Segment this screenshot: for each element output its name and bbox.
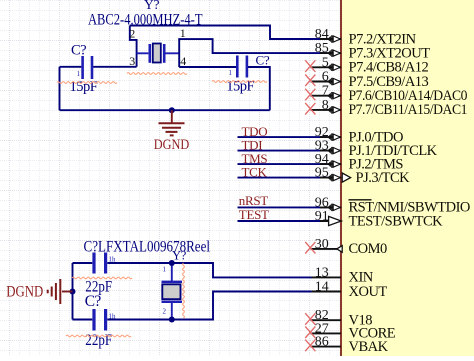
wire C1 to crystal left bar xyxy=(93,66,136,68)
pin 13 XIN xyxy=(312,265,374,285)
svg-text:C?: C? xyxy=(85,293,102,310)
pin 86 VBAK xyxy=(305,335,388,355)
svg-text:P7.7/CB11/A15/DAC1: P7.7/CB11/A15/DAC1 xyxy=(349,102,468,118)
pin 7 P7.6/CB10/A14/DAC0 xyxy=(305,84,467,104)
IC block U1 body xyxy=(341,0,474,356)
wire left rail (32k) xyxy=(72,263,74,320)
svg-text:30: 30 xyxy=(315,237,329,252)
junction crystal bottom xyxy=(169,317,175,323)
wire jog crystal pin2/pin3 left bar xyxy=(130,26,137,67)
svg-text:6: 6 xyxy=(322,70,329,85)
pin 27 VCORE xyxy=(305,321,396,341)
wire net XT2OUT: crystal right bar to pin 85 xyxy=(179,39,327,67)
junction DGND rail xyxy=(70,289,76,295)
crystal Y2 symbol (32k) xyxy=(162,263,183,320)
pin 14 XOUT xyxy=(312,280,388,300)
wire net XT2IN: top rail to pin 84 xyxy=(130,26,327,40)
pin 82 V18 xyxy=(305,308,372,328)
svg-text:TEST: TEST xyxy=(239,207,269,222)
svg-text:8: 8 xyxy=(322,98,329,113)
wire top row to XIN xyxy=(73,262,93,264)
svg-text:TCK: TCK xyxy=(242,164,268,179)
wire crystal right bar to C right cap xyxy=(179,66,236,68)
junction ground rail xyxy=(169,107,175,113)
pin 91 TEST/SBWTCK xyxy=(315,209,443,229)
svg-text:15pF: 15pF xyxy=(226,79,254,95)
capacitor C1 (left 15pF) xyxy=(77,56,93,79)
svg-text:1: 1 xyxy=(180,26,186,40)
svg-text:nRST: nRST xyxy=(239,193,269,208)
svg-text:22pF: 22pF xyxy=(85,332,112,349)
pin 94 PJ.2/TMS xyxy=(315,152,404,172)
svg-text:4: 4 xyxy=(180,54,186,68)
wire ground bottom rail xyxy=(60,109,270,111)
capacitor C3 (top 22pF) xyxy=(94,253,116,274)
pin 84 P7.2/XT2IN xyxy=(315,27,417,47)
compile-mark squiggle above 22pF top xyxy=(72,277,132,279)
pin 8 P7.7/CB11/A15/DAC1 xyxy=(305,98,467,118)
svg-text:PJ.3/TCK: PJ.3/TCK xyxy=(356,170,411,186)
svg-text:Y?: Y? xyxy=(172,249,187,263)
compile-mark squiggle under C1 xyxy=(57,82,117,84)
svg-text:13: 13 xyxy=(315,265,329,280)
wire left rail xyxy=(59,67,61,110)
wire bottom row to XOUT xyxy=(73,319,93,321)
svg-text:5: 5 xyxy=(322,55,329,70)
wire net TDO xyxy=(238,136,328,138)
svg-text:1: 1 xyxy=(77,70,81,78)
svg-text:3: 3 xyxy=(129,54,135,68)
svg-text:C?: C? xyxy=(256,52,270,67)
pin 85 P7.3/XT2OUT xyxy=(315,41,430,61)
svg-text:C?LFXTAL009678Reel: C?LFXTAL009678Reel xyxy=(84,238,211,255)
wire net TMS xyxy=(238,163,328,165)
wire net nRST xyxy=(238,206,328,208)
svg-text:Y?: Y? xyxy=(144,0,159,12)
compile-mark squiggle above 22pF bottom xyxy=(66,335,131,337)
crystal Y1 symbol xyxy=(137,44,180,63)
svg-text:DGND: DGND xyxy=(6,284,43,301)
svg-text:95: 95 xyxy=(315,166,329,181)
wire left rail to C1 xyxy=(60,66,82,68)
svg-text:COM0: COM0 xyxy=(349,241,388,257)
wire net TDI xyxy=(238,150,328,152)
compile-mark squiggle right of crystal Y2 xyxy=(183,263,185,318)
svg-text:DGND: DGND xyxy=(154,137,190,153)
wire net TEST xyxy=(238,220,330,222)
pin 6 P7.5/CB9/A13 xyxy=(305,70,428,90)
svg-text:7: 7 xyxy=(322,84,329,99)
svg-text:1: 1 xyxy=(229,69,233,77)
svg-text:1h: 1h xyxy=(109,313,117,321)
pin 92 PJ.0/TDO xyxy=(315,125,403,145)
svg-text:1h: 1h xyxy=(109,256,117,264)
compile-mark squiggle under crystal Y1 xyxy=(127,73,187,75)
ground DGND (top circuit) xyxy=(159,110,185,135)
junction crystal top xyxy=(169,260,175,266)
power port DGND (32k circuit) xyxy=(48,279,73,304)
svg-text:84: 84 xyxy=(315,27,329,42)
pin 30 COM0 xyxy=(305,237,387,257)
svg-text:C?: C? xyxy=(71,43,86,59)
svg-text:91: 91 xyxy=(315,209,329,224)
svg-text:2: 2 xyxy=(129,27,135,41)
svg-text:86: 86 xyxy=(315,335,329,350)
pin 96 RSTNMI xyxy=(315,195,470,215)
compile-mark squiggle under C2 xyxy=(212,81,267,83)
pin 93 PJ.1/TDI/TCLK xyxy=(315,139,438,159)
wire net TCK xyxy=(238,177,328,179)
svg-text:VBAK: VBAK xyxy=(349,339,389,355)
svg-text:85: 85 xyxy=(315,41,329,56)
svg-text:XOUT: XOUT xyxy=(349,284,388,300)
pin 95 PJ.3/TCK xyxy=(315,166,410,186)
pin 5 P7.4/CB8/A12 xyxy=(305,55,428,75)
svg-text:14: 14 xyxy=(315,280,329,295)
capacitor C2 (right 15pF) xyxy=(229,56,247,78)
wire right cap to ground rail xyxy=(248,67,270,110)
capacitor C4 (bottom 22pF) xyxy=(94,309,116,331)
svg-text:2: 2 xyxy=(163,308,167,316)
svg-text:TEST/SBWTCK: TEST/SBWTCK xyxy=(349,213,444,229)
svg-text:1: 1 xyxy=(163,266,167,274)
